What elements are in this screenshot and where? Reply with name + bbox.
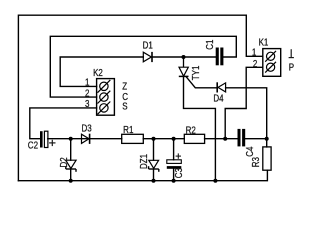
resistor R3 xyxy=(250,147,271,170)
svg-text:3: 3 xyxy=(85,98,89,109)
wire: TY1 cathode down, right, down to bottom rail xyxy=(184,76,216,180)
wire: top rail from left corner to K1 pin1 riser xyxy=(18,15,262,181)
diode D2 (zener) xyxy=(58,157,76,172)
svg-text:1: 1 xyxy=(85,77,89,88)
connector K2 xyxy=(85,67,128,115)
node: D4 / C4 / R3 junction xyxy=(265,137,269,141)
wire: D2 vertical leads xyxy=(70,139,72,161)
wire: K2 pin3 to C2 left plate xyxy=(30,108,97,139)
wire: DZ1 vertical leads xyxy=(153,139,155,161)
resistor R1 xyxy=(122,124,144,143)
capacitor C2 (electrolytic) xyxy=(28,131,56,151)
node: C3 bottom junction xyxy=(172,179,176,183)
wire: D4 anode right and down to C4/R3 node xyxy=(226,88,267,139)
svg-text:P: P xyxy=(289,61,294,72)
svg-text:C4: C4 xyxy=(244,147,255,157)
node: K1 pin2 / R2 / C4 junction xyxy=(223,137,227,141)
diode D1 xyxy=(143,40,153,63)
svg-text:1: 1 xyxy=(252,47,256,58)
capacitor C3 (electrolytic) xyxy=(167,153,184,178)
svg-text:K1: K1 xyxy=(259,37,269,48)
diode D4 xyxy=(213,82,225,103)
wire: C3 vertical leads xyxy=(173,139,175,160)
svg-text:TY1: TY1 xyxy=(190,66,201,81)
wire: inner W2 (K2 pin2 to C1 right plate) xyxy=(50,36,236,97)
svg-text:D1: D1 xyxy=(143,40,153,51)
wire: bottom ground rail xyxy=(18,170,267,181)
svg-text:S: S xyxy=(122,101,127,112)
wire: main middle row xyxy=(48,138,122,140)
node: D2 bottom junction xyxy=(69,179,73,183)
node: C3 top junction xyxy=(172,137,176,141)
capacitor C1 xyxy=(204,40,223,66)
capacitor C4 xyxy=(238,129,256,157)
svg-text:C2: C2 xyxy=(28,140,38,151)
svg-text:C3: C3 xyxy=(173,168,184,178)
wire: TY1 gate diagonal to D4 cathode xyxy=(186,77,216,88)
resistor R2 xyxy=(184,124,204,143)
ground label for K1 pin1 xyxy=(289,49,294,57)
svg-text:D4: D4 xyxy=(213,92,223,103)
thyristor TY1 xyxy=(179,57,201,80)
svg-text:R1: R1 xyxy=(123,124,133,135)
node A: D1/TY1 junction xyxy=(182,55,186,59)
connector K1 xyxy=(252,37,281,76)
svg-text:R3: R3 xyxy=(250,157,261,167)
svg-text:D3: D3 xyxy=(81,123,91,134)
wire: K1 pin2 left, down, left, down to R2/C4 node xyxy=(225,67,263,138)
svg-text:2: 2 xyxy=(85,87,89,98)
svg-text:R2: R2 xyxy=(186,124,196,135)
wire: D1 cathode to C1 left plate xyxy=(152,56,216,58)
svg-text:DZ1: DZ1 xyxy=(138,154,149,169)
wire: K2 pin1 riser to D1 row xyxy=(60,57,143,86)
node: DZ1 bottom junction xyxy=(152,179,156,183)
svg-text:2: 2 xyxy=(253,58,257,69)
node: DZ1 top junction xyxy=(152,137,156,141)
svg-text:C1: C1 xyxy=(204,40,215,50)
svg-text:D2: D2 xyxy=(58,157,69,167)
svg-text:K2: K2 xyxy=(93,67,103,78)
node: D2 top junction xyxy=(69,137,73,141)
node: TY1 cathode bottom junction xyxy=(213,179,217,183)
zener diode DZ1 xyxy=(138,154,159,172)
diode D3 xyxy=(81,123,91,144)
